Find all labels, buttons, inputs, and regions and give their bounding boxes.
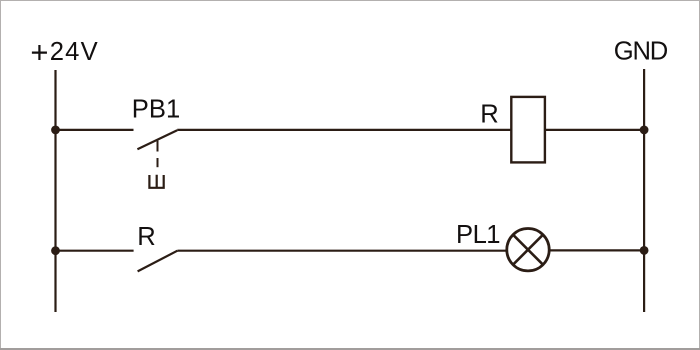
pushbutton PB1 actuator tick <box>157 141 159 152</box>
wire rung1 right segment <box>545 129 644 131</box>
lamp PL1 body <box>507 229 549 271</box>
lamp PL1 cross <box>513 235 543 265</box>
svg-text:GND: GND <box>614 38 668 66</box>
junction dot rung2 right <box>640 246 649 255</box>
junction dot rung2 left <box>51 246 60 255</box>
pushbutton PB1 manual actuator symbol <box>149 175 163 188</box>
wire right GND rail <box>643 69 645 312</box>
svg-text:PL1: PL1 <box>456 221 500 249</box>
wire rung2 left segment <box>56 250 134 252</box>
pushbutton PB1 actuator dashed link <box>157 158 159 167</box>
junction dot rung1 right <box>640 125 649 134</box>
svg-text:R: R <box>137 223 155 251</box>
svg-text:R: R <box>480 101 498 129</box>
relay contact R blade <box>138 251 178 272</box>
relay coil R body <box>511 97 545 162</box>
svg-text:PB1: PB1 <box>132 95 180 123</box>
wire rung1 middle segment <box>177 129 511 131</box>
wire rung2 middle segment <box>177 250 505 252</box>
pushbutton PB1 contact blade <box>137 130 177 149</box>
junction dot rung1 left <box>51 125 60 134</box>
wire left +24V rail <box>54 70 56 312</box>
svg-text:+24V: +24V <box>30 34 98 69</box>
wire rung2 right segment <box>550 249 644 251</box>
wire rung1 left segment <box>56 129 134 131</box>
